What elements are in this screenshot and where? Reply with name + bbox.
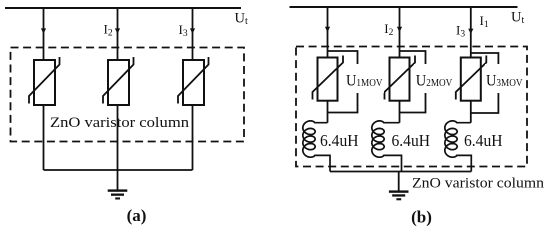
wire: stub below varistor 3 (b) [470, 101, 472, 123]
wire: branch 2 drop (a) [117, 8, 119, 60]
svg-text:I3: I3 [456, 23, 465, 40]
inductor L1 6.4uH (b) [303, 121, 330, 172]
wire: branch 2 to ground (a) [117, 105, 119, 190]
ground (a) [108, 189, 128, 199]
varistor RV2 (a) [103, 57, 134, 105]
dashed enclosure (b) [296, 47, 527, 167]
wire: stub below varistor 2 (b) [399, 101, 401, 123]
wire: branch 3 to bus (a) [192, 105, 194, 170]
ground (b) [389, 190, 409, 200]
wire: branch 2 drop (b) [399, 7, 401, 58]
wire: phase bus top (a) [5, 7, 241, 9]
varistor RV3 (a) [178, 57, 209, 105]
arrow: current into branch 3 (b) [468, 29, 473, 34]
arrow: current into branch 1 (b) [325, 27, 330, 32]
svg-text:Ut: Ut [511, 10, 524, 27]
wire: branch 1 to bus (a) [43, 105, 45, 170]
varistor U3MOV (b) [456, 56, 487, 101]
svg-text:I1: I1 [480, 13, 489, 30]
label mask U3MOV [485, 64, 524, 93]
varistor U2MOV (b) [385, 56, 416, 101]
svg-text:I2: I2 [104, 22, 113, 39]
wire: bypass loop branch 1 (b) [328, 51, 358, 113]
svg-text:ZnO varistor column: ZnO varistor column [412, 176, 545, 192]
arrow: current into branch 2 (b) [397, 27, 402, 32]
svg-text:(b): (b) [411, 208, 432, 227]
svg-text:I3: I3 [179, 22, 188, 39]
arrow: current into branch 1 (a) [41, 28, 46, 33]
wire: bottom bus (b) [330, 171, 471, 173]
wire: bypass loop branch 2 (b) [400, 51, 426, 113]
wire: branch 1 drop (b) [327, 7, 329, 58]
wire: phase bus top (b) [290, 6, 518, 8]
svg-text:(a): (a) [127, 206, 147, 225]
svg-text:6.4uH: 6.4uH [392, 131, 431, 150]
varistor RV1 (a) [29, 57, 60, 105]
arrow: current into branch 2 (a) [115, 28, 120, 33]
label mask U1MOV [345, 64, 384, 93]
wire: bottom bus (a) [44, 169, 193, 171]
wire: stub below varistor 1 (b) [327, 101, 329, 123]
varistor U1MOV (b) [313, 56, 344, 101]
inductor L2 6.4uH (b) [372, 121, 402, 172]
svg-text:6.4uH: 6.4uH [320, 131, 359, 150]
dashed enclosure (a) [11, 48, 245, 142]
wire: branch 1 drop (a) [43, 8, 45, 60]
svg-text:ZnO varistor column: ZnO varistor column [50, 115, 190, 131]
arrow: current into branch 3 (a) [190, 28, 195, 33]
svg-text:Ut: Ut [235, 11, 248, 28]
wire: bypass loop branch 3 (b) [471, 53, 499, 113]
label mask U2MOV [414, 64, 453, 93]
wire: ground stem (b) [398, 172, 400, 191]
svg-text:6.4uH: 6.4uH [464, 131, 503, 150]
inductor L3 6.4uH (b) [445, 121, 472, 172]
svg-text:I2: I2 [384, 21, 393, 38]
wire: branch 3 drop (b) [470, 7, 472, 58]
wire: branch 3 drop (a) [192, 8, 194, 60]
